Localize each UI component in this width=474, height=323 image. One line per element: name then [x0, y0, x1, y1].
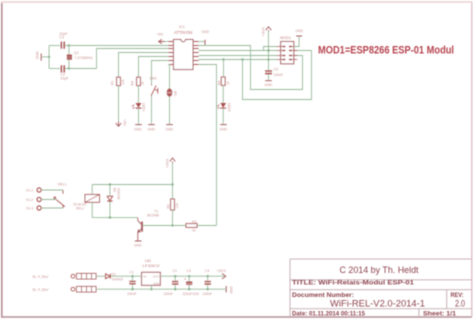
- svg-text:LF33CV: LF33CV: [142, 263, 160, 268]
- wire: [268, 74, 270, 80]
- ground GND (SW1): [148, 124, 155, 126]
- wire: [138, 86, 140, 103]
- wire IC q7 long vertical to R3: [199, 65, 217, 226]
- svg-text:MOD1=ESP8266 ESP-01 Modul: MOD1=ESP8266 ESP-01 Modul: [318, 45, 454, 57]
- svg-text:+3V3: +3V3: [217, 269, 226, 273]
- node C4 bottom: [207, 288, 209, 290]
- wire diode bottom: [109, 202, 111, 218]
- svg-text:+3V3: +3V3: [262, 28, 266, 37]
- svg-text:R4: R4: [131, 81, 135, 85]
- wire: [42, 56, 49, 58]
- svg-text:5-7,5V: 5-7,5V: [33, 287, 49, 292]
- supply +5V (IC pin1): [165, 41, 169, 43]
- capacitor C4: [207, 276, 209, 289]
- svg-text:+5V: +5V: [123, 119, 127, 126]
- node C2 bottom: [174, 288, 176, 290]
- supply +3V3 (ESP rail): [268, 32, 270, 71]
- relay coil REL1: [85, 195, 100, 203]
- wire IC q3 to MOD1 pin2: [199, 50, 277, 52]
- svg-text:Q1: Q1: [74, 51, 79, 55]
- svg-text:GND: GND: [265, 83, 273, 87]
- regulator U$1 LF33CV: [142, 272, 161, 285]
- svg-text:X1-3: X1-3: [26, 207, 33, 211]
- svg-text:+3V3: +3V3: [166, 159, 170, 168]
- resistor R1: [117, 77, 121, 85]
- wire to coil/diode tops: [92, 185, 172, 196]
- svg-text:IN: IN: [143, 275, 146, 279]
- ground GND (IC pin right top): [199, 41, 205, 43]
- wire: [151, 96, 153, 124]
- wire: [222, 85, 224, 103]
- svg-text:100nF: 100nF: [127, 292, 137, 296]
- svg-text:GND: GND: [296, 29, 304, 33]
- wire IC p6 to SW1: [152, 61, 169, 85]
- svg-text:GND: GND: [153, 281, 159, 285]
- svg-text:5-7,5V: 5-7,5V: [33, 274, 49, 279]
- ground GND (crystal): [40, 54, 42, 61]
- svg-text:1N4002: 1N4002: [112, 278, 124, 282]
- wire +3V3 jog to MOD1 pin1: [264, 47, 278, 51]
- node R6 branch: [222, 58, 224, 60]
- pad X1-1: [37, 188, 41, 192]
- wire IC p7 to JP1: [168, 65, 169, 89]
- ground GND (JP1): [166, 124, 173, 126]
- svg-text:1k: 1k: [226, 81, 230, 85]
- svg-text:100nF: 100nF: [274, 73, 284, 77]
- svg-text:C2: C2: [173, 269, 177, 273]
- svg-text:REL1: REL1: [76, 206, 84, 210]
- svg-text:C4: C4: [205, 269, 209, 273]
- node xtal-top: [68, 44, 70, 46]
- LED LED3: [217, 103, 226, 109]
- svg-text:MOD1: MOD1: [280, 36, 291, 40]
- connector MOD1 body: [281, 42, 294, 64]
- svg-text:1k: 1k: [192, 229, 196, 233]
- node C4 top: [207, 275, 209, 277]
- capacitor C4: [61, 65, 64, 72]
- svg-text:C5: C5: [274, 68, 278, 72]
- svg-text:C3: C3: [59, 36, 64, 40]
- transistor T1 BC548: [138, 218, 142, 241]
- svg-text:GND: GND: [134, 244, 142, 248]
- svg-text:JP1: JP1: [173, 91, 177, 97]
- wire R6 branch from q6: [223, 60, 225, 78]
- capacitor C5: [265, 71, 272, 74]
- connector X2-2: [71, 286, 96, 292]
- wire: [96, 275, 105, 277]
- wire +3V3 rail down: [172, 163, 174, 199]
- node C1 bottom: [131, 288, 133, 290]
- svg-text:WiFi-REL-V2.0-2014-1: WiFi-REL-V2.0-2014-1: [330, 298, 425, 308]
- pad X1-2: [37, 197, 41, 201]
- svg-text:R2: R2: [167, 204, 171, 208]
- wire outer wrap to MOD1 right row2: [243, 51, 312, 100]
- wire: [48, 46, 50, 69]
- title block: [290, 259, 472, 317]
- wire IC q2 inner wrap to MOD1 right row3: [199, 46, 303, 90]
- switch SW1: [152, 84, 158, 96]
- jumper JP1: [167, 89, 172, 97]
- capacitor C2: [174, 276, 176, 289]
- resistor R6: [221, 77, 225, 85]
- svg-text:1k: 1k: [141, 81, 145, 85]
- svg-text:GND: GND: [202, 30, 210, 34]
- pad X1-3: [37, 206, 41, 210]
- svg-text:SW1: SW1: [150, 77, 157, 81]
- supply +5V (down arrow): [116, 121, 122, 126]
- svg-text:100nF: 100nF: [203, 292, 213, 296]
- svg-text:GND: GND: [134, 127, 142, 131]
- wire IC p5 to R4: [139, 57, 169, 78]
- svg-text:10k: 10k: [121, 79, 125, 85]
- wire coil bottom: [92, 202, 138, 217]
- svg-text:Date: 01.11.2014 00:11:15: Date: 01.11.2014 00:11:15: [292, 311, 365, 318]
- diode D2: [107, 196, 112, 201]
- ground GND (LED3): [220, 124, 227, 126]
- wire base row: [143, 225, 217, 227]
- svg-text:X1-2: X1-2: [26, 198, 33, 202]
- wire: [65, 45, 69, 47]
- wire: [68, 46, 70, 69]
- svg-text:LED3: LED3: [227, 103, 231, 112]
- wire: [49, 68, 60, 70]
- capacitor C1: [132, 276, 134, 289]
- wire to IC XTAL1: [69, 45, 174, 47]
- svg-text:100nF: 100nF: [164, 292, 174, 296]
- svg-text:1N4148: 1N4148: [116, 188, 120, 200]
- node xtal-bottom: [68, 67, 70, 69]
- node base row: [171, 224, 173, 226]
- wire IC q4 to MOD1 pin3: [199, 55, 277, 57]
- node reg gnd: [150, 288, 152, 290]
- svg-text:GND: GND: [148, 127, 156, 131]
- svg-text:22pF: 22pF: [60, 76, 69, 80]
- connector X2-1: [71, 273, 96, 279]
- node rail-pin4: [267, 58, 269, 60]
- ground GND (T1): [135, 240, 142, 242]
- resistor R4: [137, 77, 141, 85]
- svg-text:TITLE: WiFi-Relais-Modul ESP-: TITLE: WiFi-Relais-Modul ESP-01: [292, 280, 415, 287]
- wire top rail left: [111, 275, 142, 277]
- diode D1: [106, 274, 111, 279]
- svg-text:GND: GND: [36, 51, 40, 59]
- IC pins left: [168, 42, 173, 65]
- svg-text:Sheet: 1/1: Sheet: 1/1: [423, 311, 457, 318]
- svg-text:LED1: LED1: [142, 103, 146, 112]
- svg-text:GND: GND: [229, 286, 233, 294]
- wire MOD1 pin8 to GND: [294, 36, 299, 46]
- supply +3V3 (relay): [170, 158, 176, 163]
- node rail-pin2: [267, 49, 269, 51]
- svg-text:R6: R6: [218, 81, 222, 85]
- op-amp/mcu IC1 body: [174, 40, 194, 70]
- node C3 top: [188, 275, 190, 277]
- wire R2 bottom: [172, 210, 174, 226]
- ground GND (LED1): [135, 124, 142, 126]
- svg-text:REL1: REL1: [58, 183, 67, 187]
- svg-text:10k: 10k: [175, 203, 179, 209]
- svg-text:7,3728MHz: 7,3728MHz: [74, 56, 93, 60]
- node C3 bottom: [188, 288, 190, 290]
- svg-text:GND: GND: [166, 127, 174, 131]
- capacitor C3 electrolytic: [188, 276, 190, 289]
- svg-text:GND: GND: [220, 127, 228, 131]
- svg-text:R1: R1: [111, 81, 115, 85]
- wire C4 to IC XTAL2: [65, 49, 174, 69]
- svg-text:C1: C1: [130, 270, 134, 274]
- svg-text:R3: R3: [192, 220, 196, 224]
- svg-text:220uF/16V: 220uF/16V: [183, 292, 200, 296]
- MOD1 pin stubs: [277, 47, 297, 60]
- wire: [49, 45, 60, 47]
- node crystal-left: [48, 56, 50, 58]
- svg-text:OUT: OUT: [153, 275, 160, 279]
- node relay rail top: [171, 183, 173, 185]
- svg-text:+5V: +5V: [157, 32, 164, 36]
- node diode bottom: [109, 216, 111, 218]
- wire IC p4 to R1: [119, 53, 169, 78]
- node C2 top: [174, 275, 176, 277]
- wire: [138, 108, 140, 124]
- node wrap outer: [241, 58, 243, 60]
- IC pins right: [193, 42, 199, 65]
- svg-text:2.0: 2.0: [455, 299, 465, 309]
- wire: [222, 108, 224, 124]
- node C1 top: [131, 275, 133, 277]
- svg-text:D2: D2: [113, 188, 117, 192]
- svg-text:IC1: IC1: [179, 25, 185, 29]
- crystal Q1: [67, 55, 72, 59]
- capacitor C3: [61, 42, 64, 49]
- svg-text:C 2014 by Th. Heldt: C 2014 by Th. Heldt: [340, 265, 419, 275]
- frame border: [1, 2, 3, 318]
- wire pads to contact: [41, 190, 63, 208]
- wire: [169, 97, 171, 125]
- wire R1 to +5V: [118, 86, 120, 122]
- svg-text:ATTINY84: ATTINY84: [174, 30, 193, 35]
- node diode top: [109, 183, 111, 185]
- supply +3V3 (output arrow): [222, 274, 226, 279]
- ground GND (power rail): [225, 286, 227, 292]
- wire IC q6 to MOD1 pin4: [199, 59, 277, 61]
- ground GND (MOD1): [296, 35, 302, 37]
- MOD1 pads: [282, 46, 292, 61]
- wire bottom rail: [96, 288, 226, 290]
- svg-text:C3: C3: [187, 269, 191, 273]
- ground GND (C5): [265, 80, 272, 82]
- wire regulator gnd: [150, 285, 152, 289]
- resistor R2: [171, 199, 175, 210]
- LED LED1: [132, 103, 141, 109]
- resistor R3: [186, 224, 197, 228]
- svg-text:X1-1: X1-1: [26, 189, 33, 193]
- svg-text:BC548: BC548: [147, 214, 159, 218]
- wire top rail right: [160, 275, 224, 277]
